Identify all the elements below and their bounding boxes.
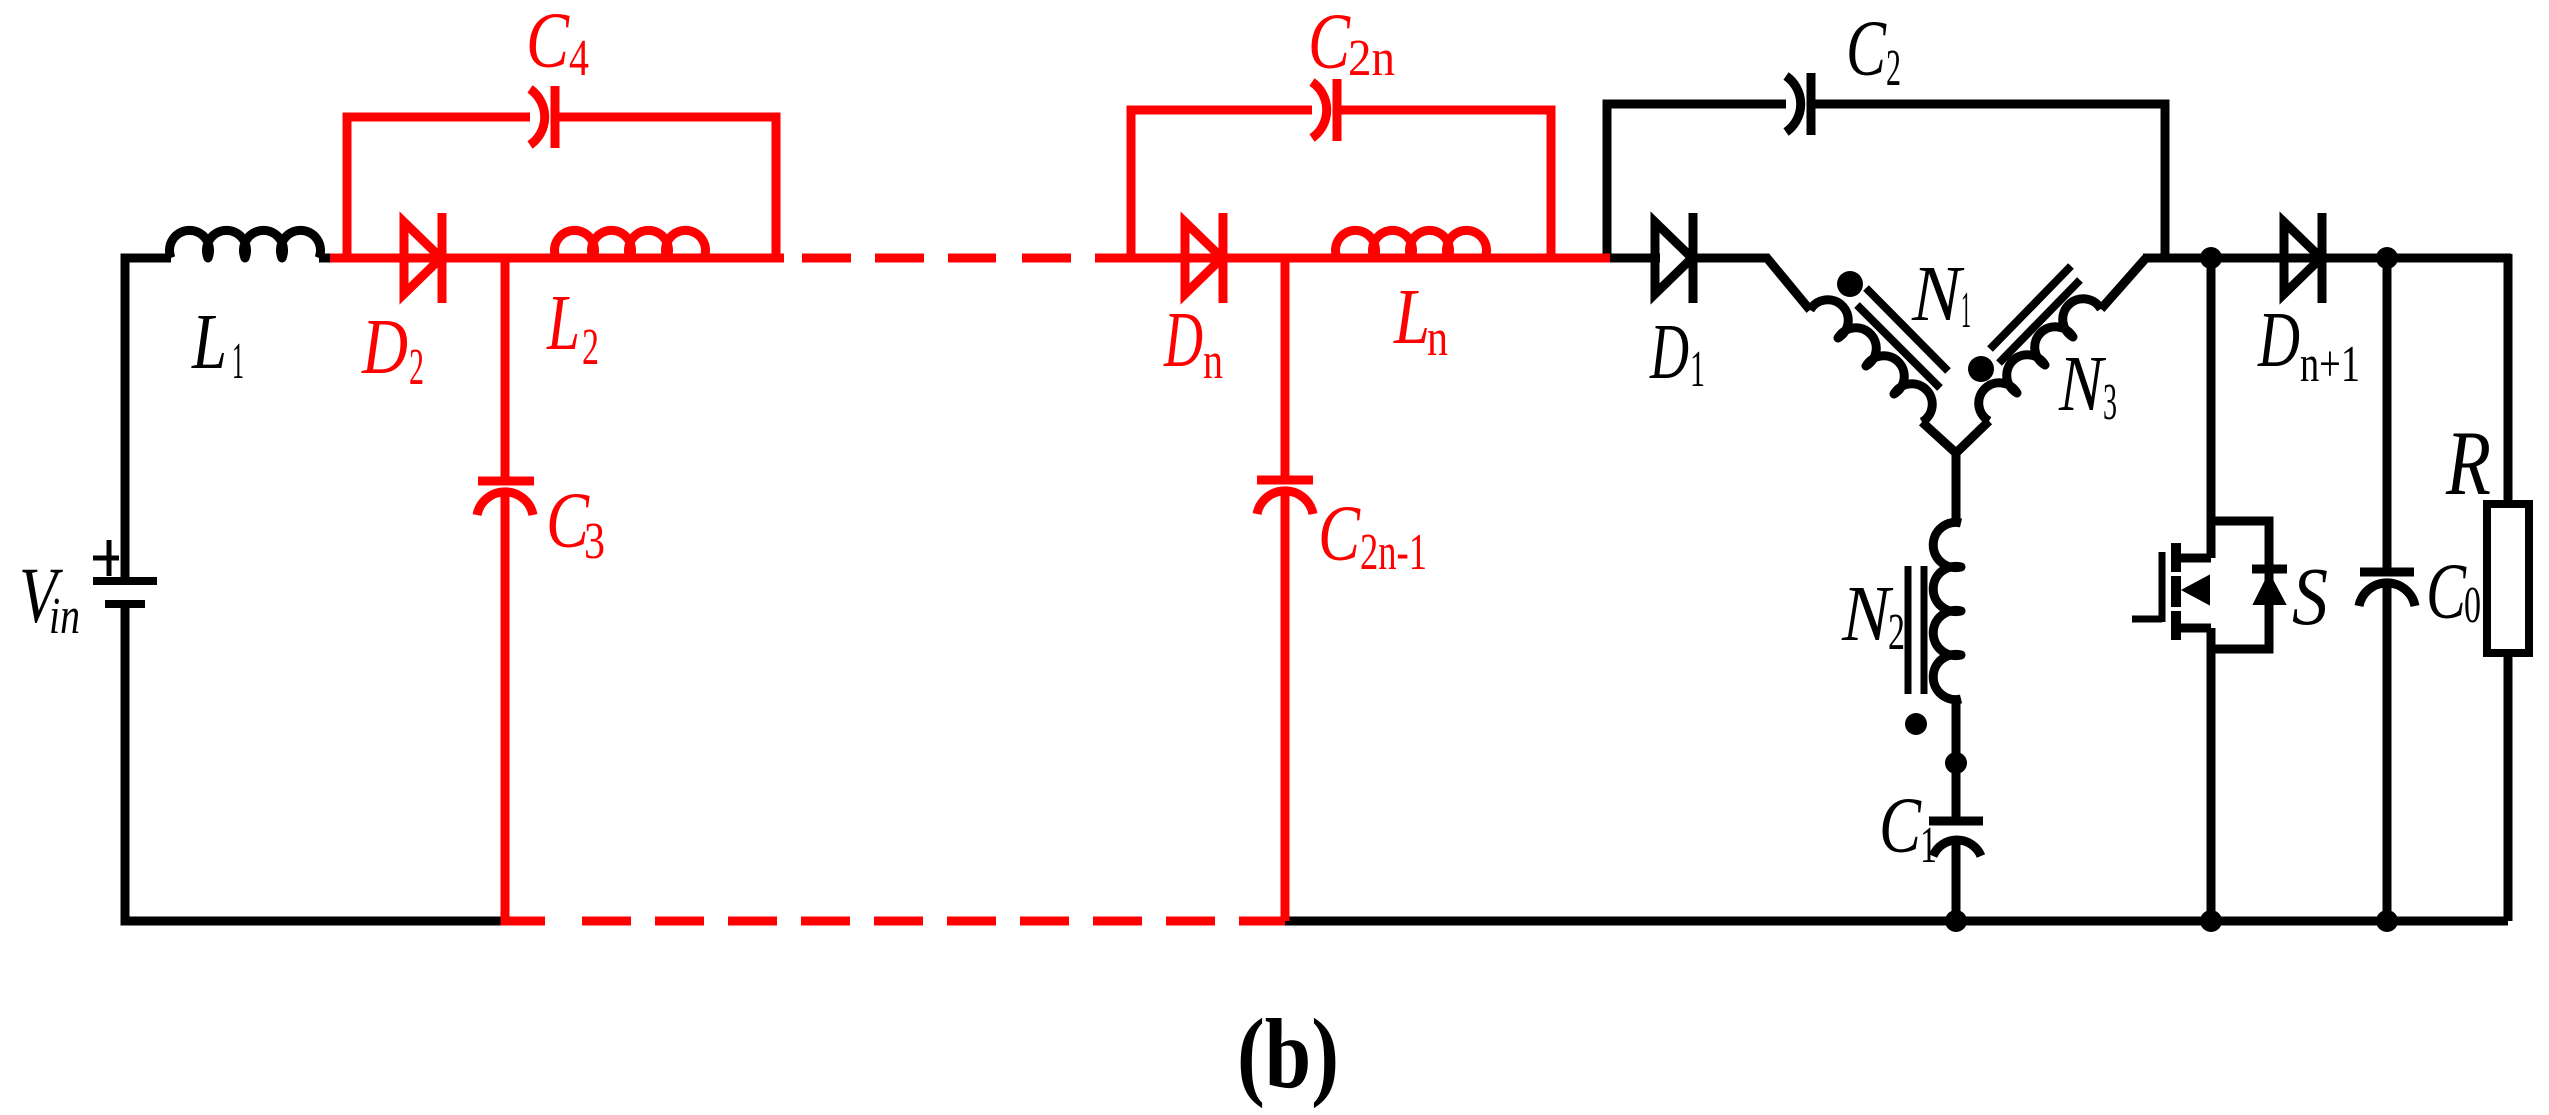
svg-text:D: D: [1649, 309, 1689, 396]
wire bottom rail black: [1285, 917, 2508, 926]
wire red main segment 1: [330, 254, 784, 263]
wire C1 to rail: [1952, 842, 1961, 921]
svg-text:0: 0: [2464, 577, 2481, 634]
svg-text:2: 2: [1886, 40, 1901, 97]
wire N1 to center node: [1922, 422, 1956, 525]
wire red main segment 2: [1095, 254, 1610, 263]
wire C2n-1 leg: [1281, 258, 1290, 476]
svg-text:C: C: [1846, 6, 1887, 93]
svg-text:2: 2: [582, 319, 599, 376]
svg-text:in: in: [49, 588, 80, 645]
svg-text:2n-1: 2n-1: [1360, 524, 1427, 581]
inductor Ln: [1336, 230, 1487, 258]
svg-text:N: N: [1911, 251, 1965, 338]
wire C2n-1 to rail: [1281, 494, 1290, 921]
wire left rail top segment: [125, 258, 171, 578]
resistor R: [2487, 504, 2529, 653]
junction node main-MOSFET: [2200, 247, 2222, 269]
winding N3: [1979, 299, 2101, 421]
svg-text:N: N: [1841, 571, 1894, 658]
battery Vin bottom plate: [105, 600, 145, 608]
wire C0 branch bottom: [2383, 586, 2392, 921]
wire C3 leg: [501, 258, 510, 477]
capacitor C2 loop left leg: [1607, 104, 1786, 254]
svg-text:1: 1: [232, 333, 244, 390]
svg-text:C: C: [1318, 491, 1361, 578]
junction node N2-C1: [1945, 752, 1967, 774]
wire MOSFET drain branch: [2207, 258, 2216, 558]
MOSFET S gate: [2132, 552, 2162, 622]
winding N1: [1810, 300, 1932, 422]
svg-text:L: L: [191, 299, 227, 386]
svg-text:1: 1: [1690, 341, 1705, 398]
wire N2 to C1: [1952, 699, 1961, 817]
inductor L1: [170, 230, 321, 258]
MOSFET S body diode triangle: [2254, 574, 2285, 604]
junction node main-C0: [2376, 247, 2398, 269]
svg-text:D: D: [1163, 297, 1203, 384]
core bars N1: [1857, 288, 1948, 388]
wire main right section: [2143, 254, 2511, 263]
svg-text:(b): (b): [1237, 998, 1339, 1109]
MOSFET S body rectangle: [2211, 521, 2269, 649]
svg-text:C: C: [2426, 549, 2467, 636]
svg-text:S: S: [2292, 550, 2328, 642]
svg-text:D: D: [2257, 297, 2300, 384]
inductor L2: [555, 230, 706, 258]
MOSFET S source stub: [2176, 624, 2211, 633]
wire C3 to rail: [505, 494, 545, 921]
capacitor C0: [2359, 572, 2415, 606]
MOSFET S body diode: [2252, 565, 2287, 574]
capacitor C4: [530, 86, 555, 148]
wire main black after red section: [1605, 254, 1660, 263]
wire N3 to main: [2101, 258, 2146, 309]
core bars N3: [1990, 266, 2080, 363]
junction node rail-C1: [1945, 910, 1967, 932]
svg-text:N: N: [2058, 341, 2106, 428]
svg-text:C: C: [1879, 783, 1922, 870]
polarity dot N1: [1837, 271, 1863, 297]
battery Vin plus sign: [93, 540, 119, 576]
MOSFET S drain stub: [2176, 554, 2211, 563]
svg-text:3: 3: [584, 513, 605, 570]
svg-text:2n: 2n: [1348, 30, 1395, 87]
wire red dashed bottom: [509, 917, 1285, 926]
svg-text:4: 4: [569, 30, 589, 87]
junction node rail-MOSFET: [2200, 910, 2222, 932]
capacitor C2n loop left leg: [1131, 110, 1312, 254]
polarity dot N3: [1968, 356, 1994, 382]
junction node rail-C0: [2376, 910, 2398, 932]
svg-text:R: R: [2445, 412, 2491, 514]
wire C0 branch top: [2383, 258, 2392, 568]
diode D1: [1655, 213, 1693, 303]
core bars N2: [1908, 566, 1924, 694]
svg-text:n: n: [1427, 310, 1448, 367]
svg-text:n: n: [1203, 333, 1223, 390]
capacitor C2n loop right segment: [1337, 110, 1551, 254]
diode Dn: [1185, 213, 1223, 303]
winding N3 lead: [1956, 421, 1989, 453]
svg-text:C: C: [1308, 0, 1351, 86]
diode D2: [404, 213, 442, 303]
wire output right leg bottom: [2504, 653, 2513, 921]
svg-text:2: 2: [409, 339, 424, 396]
capacitor C1: [1929, 821, 1983, 856]
wire L1 to red section: [319, 254, 330, 263]
diode Dn+1: [2284, 213, 2322, 303]
capacitor C2n-1: [1257, 480, 1313, 514]
wire D1 to transformer: [1692, 258, 1810, 310]
svg-text:C: C: [526, 0, 570, 85]
svg-text:L: L: [546, 280, 580, 367]
wire left rail bottom segment: [125, 607, 509, 921]
capacitor C2: [1786, 73, 1811, 135]
svg-text:2: 2: [1888, 604, 1905, 661]
svg-text:D: D: [361, 304, 408, 391]
winding N2: [1933, 522, 1961, 699]
wire red dashed top: [802, 254, 1071, 263]
capacitor C3: [477, 481, 534, 515]
svg-text:L: L: [1393, 274, 1430, 361]
capacitor C2 loop right segment: [1811, 104, 2165, 254]
capacitor C4 loop left leg: [347, 117, 530, 254]
MOSFET S channel bars: [2171, 543, 2181, 640]
wire output right leg top: [2504, 254, 2513, 504]
capacitor C4 loop right segment: [555, 117, 776, 254]
polarity dot N2: [1905, 713, 1927, 735]
MOSFET S arrow: [2183, 576, 2209, 604]
svg-text:1: 1: [1961, 282, 1971, 339]
svg-text:n+1: n+1: [2300, 336, 2360, 393]
battery Vin top plate: [93, 577, 157, 585]
wire MOSFET source to rail: [2207, 628, 2216, 921]
svg-text:3: 3: [2103, 374, 2117, 431]
capacitor C2n: [1312, 79, 1337, 141]
svg-text:1: 1: [1920, 817, 1937, 874]
